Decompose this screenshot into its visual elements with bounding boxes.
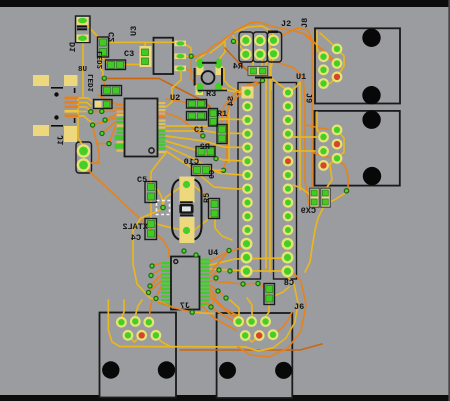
wire strip right vertical	[288, 82, 300, 190]
wire J5 pad1 feed	[121, 300, 124, 322]
svg-text:R4: R4	[233, 62, 243, 72]
svg-text:J8: J8	[300, 18, 310, 28]
wire J5 pad2 feed	[135, 300, 142, 316]
wire usb diag long	[86, 168, 169, 257]
svg-text:U1: U1	[296, 72, 306, 82]
svg-text:S4: S4	[226, 96, 236, 106]
IC U2 body with pins	[115, 99, 166, 157]
wire via R4	[262, 71, 264, 78]
wire D1 to C2	[84, 22, 100, 39]
wire J10 right	[91, 162, 100, 164]
wire via to J6	[258, 284, 269, 296]
header J2	[239, 31, 282, 63]
capacitor C7	[310, 188, 331, 207]
svg-text:C1: C1	[194, 125, 204, 135]
wire C5 to via	[152, 187, 163, 205]
wire U2 left fan 4	[105, 115, 116, 121]
bottom black bar	[0, 395, 450, 401]
capacitor C4	[145, 219, 157, 240]
wire U2 right fan 3	[166, 136, 244, 148]
resistor R1	[209, 109, 218, 127]
svg-text:XTAL2: XTAL2	[122, 222, 148, 232]
U3 pads	[175, 41, 187, 72]
wire U2 top right	[166, 72, 181, 107]
wire D1 bottom down	[82, 43, 84, 98]
svg-text:C8: C8	[284, 278, 294, 288]
via below R4	[260, 78, 265, 83]
wire J7 right fan 3	[210, 269, 288, 271]
wire yellow to J2 pad1	[233, 36, 245, 52]
wire C8 right up	[274, 287, 289, 296]
USB connector J1	[33, 75, 79, 142]
svg-text:D1: D1	[68, 42, 78, 52]
wire U2 left fan 3	[91, 110, 116, 113]
wire yellow link to R3 pad	[219, 42, 225, 62]
wire U2 left fan 2	[102, 108, 116, 112]
wire J6 bottom row link	[245, 336, 259, 343]
capacitor C1	[217, 125, 227, 144]
wire J5 pad6 to bottom	[155, 335, 170, 346]
wire C2 pad stub	[101, 56, 104, 80]
svg-text:C10: C10	[184, 157, 199, 167]
wire J6 top feed	[230, 300, 239, 322]
connector J9 circles and pads	[318, 111, 381, 186]
resistor array B	[187, 112, 207, 121]
svg-text:C2: C2	[107, 32, 117, 42]
wire J7 left fan 2	[151, 269, 161, 276]
wire J7 right fan 8	[210, 289, 216, 307]
header U1 pads	[282, 87, 294, 277]
wire via to C1 orange	[222, 81, 263, 123]
wire U1 to J9 2	[293, 150, 315, 152]
LED3 component	[106, 60, 126, 70]
via near C1	[200, 133, 205, 138]
svg-text:R1: R1	[217, 109, 227, 119]
wire dark diag to R4	[225, 48, 248, 71]
wire yellow vertical left of S4	[228, 104, 230, 162]
wire J8 yellow 2	[320, 33, 337, 49]
wire J7 right fan 10	[210, 297, 245, 322]
wire U3 pad2 to via	[185, 55, 189, 57]
svg-text:LED1: LED1	[88, 74, 96, 93]
connector J10 body	[76, 142, 92, 173]
wire J7 right fan 1	[210, 246, 248, 261]
wire left vertical to J10	[78, 98, 84, 149]
svg-text:U8: U8	[77, 66, 87, 74]
wire C7 down	[305, 206, 324, 272]
wire orange to J9 pads	[306, 125, 333, 130]
wire C2 bottom to LED3	[103, 51, 109, 65]
connector J5 body	[100, 313, 177, 398]
wire C5 to C4 vertical	[150, 198, 152, 220]
svg-text:J2: J2	[281, 19, 291, 29]
wire R3 pad1 up	[196, 53, 206, 61]
svg-text:U4: U4	[208, 248, 218, 258]
wire strip vertical 1	[265, 60, 267, 268]
wire bottom dark horizontal	[180, 344, 322, 350]
wire xtal top to R5	[193, 185, 212, 202]
wire R4 up	[252, 58, 254, 68]
wire J9 yellow inside	[317, 112, 324, 137]
wire via down to J10	[93, 126, 99, 164]
crystal Y1	[172, 177, 202, 244]
svg-text:C9: C9	[209, 170, 217, 180]
wire orange U2 to via C1	[166, 113, 203, 136]
via cluster around J7	[149, 263, 154, 268]
svg-text:J7: J7	[180, 301, 190, 311]
wire orange to via J5	[158, 302, 192, 312]
wire J7 left fan 3	[150, 275, 161, 286]
wire C8 down	[266, 303, 269, 316]
wire U2 left fan 6	[102, 122, 116, 134]
via right of C7	[344, 188, 350, 194]
right edge line	[448, 0, 450, 401]
resistor R2	[196, 147, 215, 157]
wire left loop yellow	[133, 210, 172, 307]
LED1 component	[102, 86, 122, 96]
resistor array A	[187, 100, 207, 109]
wire J9 to C7	[325, 165, 332, 190]
wire J2 pad3 down	[271, 58, 274, 90]
wire U3 pad3	[185, 68, 196, 76]
wire right vertical orange	[281, 28, 312, 188]
wire U2 right fan 5	[166, 146, 242, 175]
wire J6 pad6 right	[273, 312, 292, 335]
diode D1	[76, 16, 91, 43]
wire J7 to J6 feed 4	[202, 306, 236, 330]
wire U2 right fan 2	[166, 131, 244, 134]
header S4 body	[238, 83, 261, 280]
wire R3 pad to S4 area	[219, 64, 243, 93]
connector J6 body	[217, 313, 293, 398]
wire C3 top	[144, 42, 146, 49]
wire J7 right fan 9	[210, 293, 238, 316]
wire usb finger stubs	[79, 98, 94, 102]
svg-text:R2: R2	[200, 142, 210, 152]
connector J9 body	[315, 111, 400, 186]
wire J8 yellow inside	[317, 31, 323, 57]
wire U2 right fan 6	[166, 151, 244, 189]
svg-text:J9: J9	[304, 93, 314, 103]
wire J9 pads link	[324, 130, 345, 166]
wire U2 right fan 4	[166, 141, 244, 161]
wire U2 right fan 1	[166, 119, 244, 126]
wire J7 right fan 4	[210, 251, 229, 274]
wire long orange over J2 to J8	[194, 22, 336, 62]
svg-text:C5: C5	[137, 175, 147, 185]
via near C9	[213, 156, 218, 161]
tick between strips	[255, 77, 272, 79]
wire J5 bottom row link	[128, 335, 141, 342]
wire xtal bottom to C4	[152, 222, 181, 230]
wire C2 to U3 pin1	[103, 41, 174, 43]
wire C10 to via	[207, 169, 222, 171]
wire J5 long bottom yellow	[108, 300, 246, 347]
wire LED3 to C3	[121, 61, 145, 65]
capacitor C5	[145, 182, 157, 203]
wire U3 pad1 to R3	[184, 43, 191, 58]
via near U3	[189, 54, 194, 59]
capacitor C10	[192, 165, 212, 176]
wire J7 right fan 7	[210, 285, 226, 298]
wire J9 pad down to via	[337, 158, 348, 191]
wire long horizontal dark orange	[105, 78, 212, 112]
svg-text:U2: U2	[170, 93, 180, 103]
wire via to R2 orange	[224, 84, 259, 170]
IC J7 body with pins	[161, 257, 210, 310]
wire R5 down	[215, 218, 232, 240]
wire J7 left fan 1	[152, 263, 161, 266]
via near C10	[221, 168, 226, 173]
wire U1 to J9 1	[293, 136, 317, 138]
connector J6 circles and pads	[219, 316, 292, 379]
wire loop right yellow	[246, 272, 298, 351]
wire U2 left fan 5	[93, 118, 116, 125]
svg-text:R5: R5	[202, 193, 212, 203]
header U1 body	[274, 83, 297, 280]
top black bar	[0, 0, 450, 7]
svg-text:J1: J1	[56, 135, 66, 145]
svg-text:LED2: LED2	[97, 51, 105, 70]
svg-text:U3: U3	[129, 26, 139, 36]
wire J5 pad3 feed orange	[149, 300, 152, 317]
capacitor C8	[264, 284, 275, 305]
svg-text:J6: J6	[294, 302, 304, 312]
wire orange to J8 pad	[305, 35, 333, 62]
wire xtal bottom to R5	[193, 215, 212, 231]
connector J8 circles and pads	[318, 29, 381, 105]
wire J7 right fan 2	[210, 258, 288, 265]
wire via down	[191, 58, 196, 88]
wire via J5 right	[192, 312, 214, 313]
connector J10 pads	[77, 144, 91, 172]
wire J6 top feed 2	[247, 298, 252, 322]
U8 component	[94, 100, 113, 109]
via J5 top right	[190, 310, 195, 315]
highlighted via box	[157, 201, 170, 215]
switch R3	[194, 59, 223, 96]
capacitor C3	[140, 46, 152, 67]
wire J7 to J6 feed 3	[205, 302, 238, 322]
wire C7 left link	[293, 185, 312, 196]
wire strip vertical 2	[269, 35, 271, 272]
wire orange to J9 pad2	[312, 152, 333, 158]
wire J7 left fan 4	[149, 281, 162, 293]
wire U2 left fan 7	[109, 125, 116, 144]
resistor R4	[248, 67, 268, 76]
wire J7 left fan 5	[156, 287, 161, 299]
wire right vertical orange 2	[277, 62, 310, 207]
wire U2 left fan 1	[98, 95, 116, 104]
svg-text:C4: C4	[131, 233, 141, 243]
wire orange U2 to resistorA	[166, 99, 190, 104]
via left of J2	[231, 39, 236, 44]
header S4 pads	[241, 87, 254, 278]
wire via to C7 yellow	[331, 192, 347, 202]
wire xtal top to via	[163, 187, 181, 204]
svg-text:C3: C3	[124, 49, 134, 59]
wire J7 right fan 5	[210, 270, 219, 277]
wire J7 right fan 6	[210, 281, 258, 284]
wire to U1 pin1	[271, 78, 286, 89]
wire loop right orange	[238, 268, 306, 357]
wire J8 pads link	[324, 49, 345, 84]
via cluster left of U2	[102, 76, 107, 81]
capacitor C2	[98, 37, 109, 57]
wire C5 up to U2	[151, 153, 166, 184]
wire R4 up2	[261, 60, 263, 70]
wire via row left	[97, 143, 108, 145]
connector J8 body	[315, 28, 400, 103]
regulator U3 body	[154, 38, 174, 74]
wire R3 bottom to S4 pin1	[219, 87, 240, 93]
wire via to LED1	[103, 78, 105, 87]
connector J5 circles and pads	[102, 316, 175, 379]
svg-text:CX9: CX9	[301, 206, 316, 216]
resistor R5	[209, 199, 220, 219]
wire diag over J2 yellow	[210, 26, 274, 53]
